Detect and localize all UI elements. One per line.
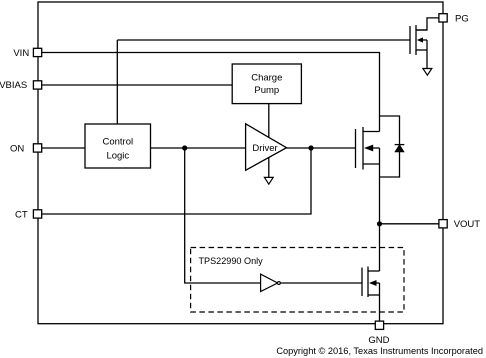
svg-text:Charge: Charge [251,72,282,83]
pin CT [15,209,42,220]
wire Driver to ground symbol [268,157,270,177]
transistor Q2 (PG open-drain NFET) [410,25,427,55]
svg-text:GND: GND [368,335,389,346]
outer block border [38,2,443,324]
diode D1 (body diode) [395,145,405,152]
transistor Q2 body arrow [417,37,423,42]
junction node gate/CT [308,145,313,150]
charge pump block [232,64,301,104]
wire VIN to Q1 drain [42,53,380,132]
wire Q2 drain to PG pin [416,18,439,30]
pin GND [368,321,389,346]
transistor Q1 (power NFET) [356,127,380,170]
svg-text:Control: Control [102,136,133,147]
wire diode D1 branch [380,116,400,177]
svg-text:Copyright © 2016, Texas Instru: Copyright © 2016, Texas Instruments Inco… [276,346,483,356]
wire Control Logic to Driver [151,147,246,149]
control logic block [85,124,151,168]
wire PG gate line from node A [117,39,410,41]
svg-text:Driver: Driver [252,143,277,154]
transistor Q3 (QOD NFET) [362,267,380,298]
wire VOUT node to VOUT pin [380,223,439,225]
wire Q3 source to GND pin [379,283,381,321]
ground symbol below Q2 [423,69,432,76]
wire CT to gate node [42,148,312,214]
pin PG [439,14,469,25]
op-amp Driver buffer [246,124,287,171]
wire node A down to Control Logic [116,40,118,124]
pin VBIAS [0,80,42,91]
svg-text:Pump: Pump [254,85,279,96]
pin VOUT [439,219,480,230]
junction node VOUT [377,221,382,226]
transistor Q1 body arrow [364,145,373,152]
svg-text:ON: ON [10,143,24,154]
ground symbol below Driver [264,177,273,184]
svg-text:CT: CT [15,209,28,220]
svg-text:TPS22990 Only: TPS22990 Only [199,256,264,266]
svg-text:PG: PG [455,14,469,25]
wire Q2 source to ground symbol [426,40,428,68]
inverter U2 [261,274,281,291]
svg-text:Logic: Logic [106,150,129,161]
wire Driver output to Q1 gate [287,147,356,149]
wire Charge Pump to Driver [268,104,270,138]
pin ON [10,143,42,154]
svg-text:VIN: VIN [13,48,29,59]
svg-text:VOUT: VOUT [454,219,481,230]
wire ON to Control Logic [42,147,86,149]
wire inverter U2 output to Q3 gate [280,282,362,284]
wire VBIAS to Charge Pump [42,84,233,86]
dashed box TPS22990 Only [191,248,404,313]
svg-text:VBIAS: VBIAS [0,80,27,91]
wire gate node down to inverter U2 [185,148,261,283]
pin VIN [13,48,41,59]
transistor Q3 body arrow [369,280,377,286]
junction node gate/QOD [182,145,187,150]
wire Q1 source rail to Q3 drain [379,148,381,271]
